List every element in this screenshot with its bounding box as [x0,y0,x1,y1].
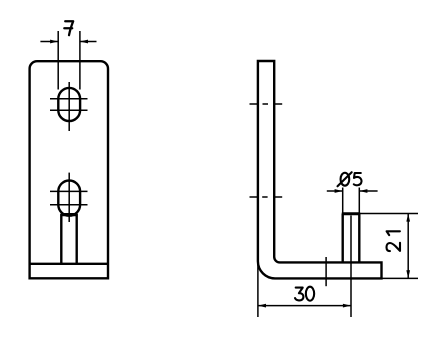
upper slot horizontal centerline (top arc center) [50,98,88,100]
dimension O5: dimension line right segment with arrow [359,190,377,192]
lower slot dashed centerline (side view) [250,196,283,198]
lower slot horizontal centerline (bottom arc center) [50,204,88,206]
dimension O5: dimension line left segment with arrow [327,190,343,192]
dimension 21: top extension line [359,213,418,215]
dimension 7: dimension line right segment with arrow [80,41,97,43]
dimension 30: dimension line with arrows [258,305,351,307]
dimension 21: bottom extension line [382,277,418,279]
pin top edge thick line (side view) [342,212,360,215]
dimension 30: left extension line [257,262,259,318]
dimension 7: text label "7" (crossed seven, CAD style) [64,21,73,35]
dimension 30: text label "30" (CAD style) [295,287,314,301]
pin (front view) [61,215,76,264]
dimension O5: extension line right [358,188,360,213]
upper slot (front view) [58,88,80,121]
base plate top edge (front view) [30,263,108,265]
upper slot vertical centerline [68,82,70,131]
digit 1 [387,231,400,235]
lower slot (front view) [58,181,80,216]
bracket body outline (front view) [30,61,108,278]
dimension 7: extension line right [79,31,81,90]
lower slot vertical centerline [68,173,70,222]
digit 3 [295,288,303,301]
dimension 21: dimension line with arrows [407,214,409,279]
dimension O5: extension line left [342,188,344,213]
dimension O5: text label "Ø5" (CAD style) [338,172,362,186]
dimension 21: text label "21" (rotated, CAD style) [387,231,401,251]
pin right side (side view) [358,214,360,263]
digit 2 [387,243,401,251]
L-profile outline (side view) [258,61,382,278]
lower slot horizontal centerline (top arc center) [50,190,88,192]
dimension 7: dimension line left segment with arrow [40,41,58,43]
digit 0 [306,287,314,301]
pin centerline extended down (also 30-dim right extension) [350,216,352,318]
upper slot horizontal centerline (bottom arc center) [50,109,88,111]
leg centerline crossing (side view) [325,257,327,286]
pin left side (side view) [342,214,344,263]
upper slot dashed centerline (side view) [250,103,283,105]
dimension 7: extension line left [57,31,59,90]
pin top edge thick line (front view) [61,213,76,216]
